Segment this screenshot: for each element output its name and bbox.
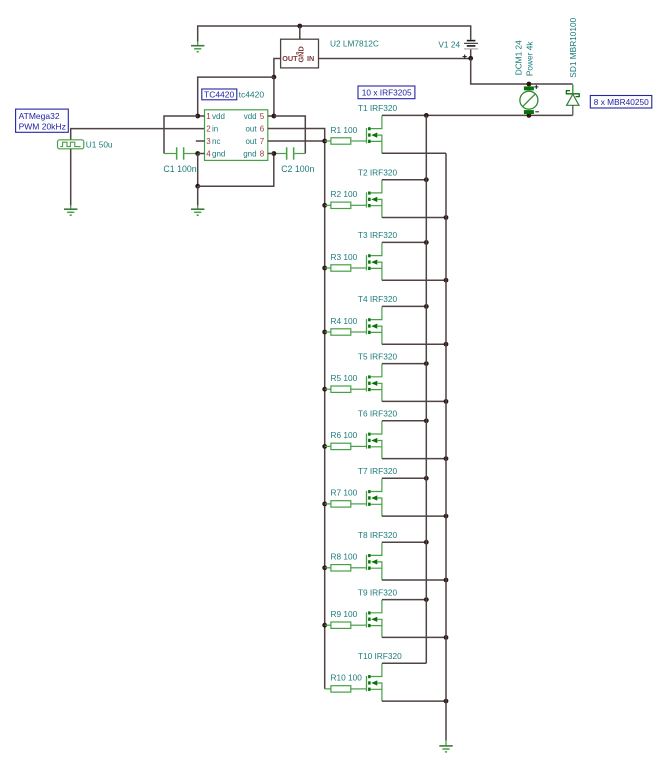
svg-text:T4 IRF320: T4 IRF320 (358, 294, 398, 304)
node drain bus T2 (424, 177, 429, 182)
node gate bus R6 (322, 444, 327, 449)
wire T5 source rail (382, 400, 446, 402)
node gate bus R7 (322, 502, 327, 507)
transistor T5 IRF320 (367, 364, 382, 402)
diode SD1 schottky (566, 85, 579, 116)
node pin4 gnd (195, 151, 200, 156)
wire T2 source rail (382, 217, 446, 219)
wire battery bottom (470, 49, 472, 58)
node pin1 vdd (195, 114, 200, 119)
wire T8 drain rail (382, 541, 426, 543)
node gate bus R9 (322, 623, 327, 628)
node vdd split (272, 75, 277, 80)
svg-text:TC4420: TC4420 (204, 89, 235, 99)
svg-text:R6 100: R6 100 (331, 430, 358, 440)
wire gate bus (324, 141, 326, 689)
svg-text:R1 100: R1 100 (331, 125, 358, 135)
wire T7 source rail (382, 515, 446, 517)
svg-text:6: 6 (260, 125, 265, 134)
node gate bus R2 (322, 203, 327, 208)
resistor R3 (325, 265, 367, 271)
node motor minus (527, 113, 532, 118)
svg-text:U2 LM7812C: U2 LM7812C (330, 38, 379, 48)
transistor T10 IRF320 (367, 664, 382, 702)
wire C2 loop (274, 116, 305, 154)
svg-text:gnd: gnd (243, 150, 256, 159)
wire pin4 lead (198, 153, 205, 155)
wire U2 OUT down (274, 59, 281, 78)
node source bus T2 (444, 215, 449, 220)
wire pin6 out loop (268, 129, 325, 142)
resistor R5 (325, 386, 367, 392)
svg-text:7: 7 (260, 137, 265, 146)
node gate bus R1 (322, 139, 327, 144)
ground G4 bottom (439, 746, 452, 752)
svg-text:R8 100: R8 100 (331, 552, 358, 562)
node source bus T6 (444, 456, 449, 461)
wire U2 IN to battery (319, 58, 471, 60)
svg-text:R2 100: R2 100 (331, 189, 358, 199)
wire pin1 lead (198, 115, 205, 117)
node gnd rail (195, 184, 200, 189)
wire T10 drain rail (382, 662, 426, 664)
node drain bus T7 (424, 476, 429, 481)
svg-text:T9 IRF320: T9 IRF320 (358, 587, 398, 597)
svg-text:5: 5 (260, 112, 265, 121)
wire T8 source rail (382, 579, 446, 581)
svg-text:V1 24: V1 24 (438, 40, 460, 50)
resistor R2 (325, 202, 367, 208)
wire T1 source rail (382, 152, 446, 154)
wire T7 drain rail (382, 477, 426, 479)
svg-text:T5 IRF320: T5 IRF320 (358, 351, 398, 361)
svg-text:SD1 MBR10100: SD1 MBR10100 (568, 17, 578, 77)
transistor T8 IRF320 (367, 543, 382, 581)
svg-text:vdd: vdd (212, 112, 225, 121)
wire top GND rail (198, 26, 471, 42)
wire pin7 out (268, 140, 325, 142)
node source bus T8 (444, 578, 449, 583)
wire ground stub left (197, 42, 199, 46)
transistor T4 IRF320 (367, 307, 382, 345)
svg-text:U1 50u: U1 50u (86, 140, 113, 150)
svg-text:T3 IRF320: T3 IRF320 (358, 230, 398, 240)
label box 10 x IRF3205 (358, 86, 415, 99)
wire T9 drain rail (382, 599, 426, 601)
wire gnd to ground (197, 186, 199, 205)
wire T10 source rail (382, 700, 446, 702)
node pin8 gnd (272, 151, 277, 156)
node drain bus T5 (424, 361, 429, 366)
label box 8 x MBR40250 (590, 96, 652, 109)
battery plus mark (463, 55, 467, 59)
resistor R8 (325, 565, 367, 571)
node source bus T4 (444, 342, 449, 347)
node U2 GND to rail (297, 24, 302, 29)
svg-text:C2 100n: C2 100n (281, 164, 314, 174)
wire pin8 lead (268, 153, 274, 155)
resistor R4 (325, 329, 367, 335)
resistor R9 (325, 622, 367, 628)
wire gnd rail (198, 154, 274, 187)
svg-text:R10 100: R10 100 (331, 673, 363, 683)
node source bus T9 (444, 635, 449, 640)
svg-text:out: out (245, 125, 257, 134)
svg-text:T2 IRF320: T2 IRF320 (358, 168, 398, 178)
svg-text:R5 100: R5 100 (331, 373, 358, 383)
wire T4 source rail (382, 343, 446, 345)
svg-text:4: 4 (206, 150, 211, 159)
wire vdd to pin5 (273, 77, 275, 116)
node drain bus T8 (424, 540, 429, 545)
svg-text:R7 100: R7 100 (331, 488, 358, 498)
node gate bus R4 (322, 330, 327, 335)
svg-text:R9 100: R9 100 (331, 609, 358, 619)
node drain bus T4 (424, 304, 429, 309)
resistor R10 (325, 686, 367, 692)
svg-text:10 x IRF3205: 10 x IRF3205 (362, 88, 412, 98)
svg-text:ATMega32: ATMega32 (19, 111, 60, 121)
node source bus T5 (444, 399, 449, 404)
wire T5 drain rail (382, 363, 426, 365)
transistor T1 IRF320 (367, 116, 382, 154)
wire pin5 lead (268, 115, 274, 117)
wire T6 source rail (382, 458, 446, 460)
node drain bus T9 (424, 597, 429, 602)
node source bus T7 (444, 514, 449, 519)
motor DCM1 (520, 85, 539, 114)
transistor T3 IRF320 (367, 243, 382, 281)
capacitor C2 (274, 147, 305, 159)
resistor R7 (325, 501, 367, 507)
resistor R1 (325, 138, 367, 144)
ground G1 top-left (191, 46, 204, 52)
pulse source U1 (58, 140, 84, 149)
pin 3 nc stub (196, 140, 205, 142)
node source bus T10 (444, 699, 449, 704)
wire U1 to ground (70, 149, 72, 206)
svg-text:T8 IRF320: T8 IRF320 (358, 530, 398, 540)
node drain bus T6 (424, 418, 429, 423)
wire T6 drain rail (382, 420, 426, 422)
node pin5 vdd (272, 114, 277, 119)
label box ATMega32 PWM 20kHz (16, 109, 69, 132)
wire vdd to pin1 (198, 77, 274, 116)
wire T3 drain rail (382, 241, 426, 243)
svg-text:T10 IRF320: T10 IRF320 (358, 651, 402, 661)
svg-text:nc: nc (212, 137, 220, 146)
transistor T9 IRF320 (367, 600, 382, 638)
wire T2 drain rail (382, 179, 426, 181)
svg-text:Power 4k: Power 4k (524, 41, 534, 76)
resistor R6 (325, 443, 367, 449)
wire U2 GND pin (299, 26, 301, 39)
svg-text:2: 2 (206, 125, 211, 134)
transistor T7 IRF320 (367, 479, 382, 516)
wire gnd vertical left (197, 154, 199, 187)
wire PWM input to pin2 (71, 129, 205, 140)
label box TC4420 (202, 89, 237, 100)
node drain bus T3 (424, 240, 429, 245)
svg-text:in: in (212, 125, 218, 134)
wire T1 drain rail (382, 114, 426, 116)
wire C1 loop (164, 116, 198, 154)
wire T9 source rail (382, 636, 446, 638)
wire drain bus (425, 115, 427, 663)
svg-text:C1 100n: C1 100n (163, 164, 196, 174)
wire T4 drain rail (382, 305, 426, 307)
svg-text:R3 100: R3 100 (331, 252, 358, 262)
svg-text:T6 IRF320: T6 IRF320 (358, 409, 398, 419)
node gate bus R3 (322, 266, 327, 271)
svg-text:tc4420: tc4420 (239, 89, 265, 99)
wire +24V to motor and diode (471, 58, 573, 84)
svg-text:1: 1 (206, 112, 211, 121)
ground G3 under TC4420 (191, 209, 204, 215)
IC U3 TC4420 body (205, 110, 268, 161)
transistor T6 IRF320 (367, 421, 382, 459)
node gate bus R8 (322, 565, 327, 570)
svg-text:8: 8 (260, 150, 265, 159)
wire drain node rail (426, 114, 572, 116)
transistor T2 IRF320 (367, 180, 382, 218)
node drain bus T1 (424, 113, 429, 118)
svg-text:T7 IRF320: T7 IRF320 (358, 466, 398, 476)
svg-text:out: out (245, 137, 257, 146)
node battery/IN junction (468, 56, 473, 61)
regulator U2 LM7812C body (281, 39, 319, 68)
svg-text:T1 IRF320: T1 IRF320 (358, 103, 398, 113)
svg-text:IN: IN (307, 54, 314, 63)
svg-text:GND: GND (297, 46, 306, 62)
svg-text:8 x MBR40250: 8 x MBR40250 (594, 97, 649, 107)
ground G2 under U1 (64, 209, 77, 215)
battery V1 24 (464, 40, 478, 50)
svg-text:gnd: gnd (212, 150, 225, 159)
node gate bus R5 (322, 387, 327, 392)
svg-text:DCM1 24: DCM1 24 (513, 40, 523, 75)
svg-text:3: 3 (206, 137, 211, 146)
svg-text:PWM 20kHz: PWM 20kHz (19, 122, 66, 132)
svg-text:R4 100: R4 100 (331, 316, 358, 326)
wire source bus (445, 153, 447, 741)
node motor plus (527, 82, 532, 87)
wire T3 source rail (382, 279, 446, 281)
node source bus T3 (444, 278, 449, 283)
capacitor C1 (164, 147, 198, 159)
svg-text:vdd: vdd (244, 112, 257, 121)
